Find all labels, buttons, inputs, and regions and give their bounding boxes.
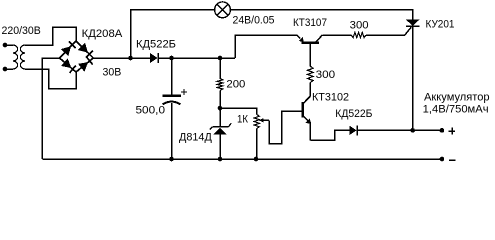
resistor R1 200 — [217, 78, 223, 90]
label 1К — [237, 114, 249, 126]
svg-text:КУ201: КУ201 — [426, 18, 455, 30]
label Д814Д — [179, 131, 212, 143]
wire primary bottom lead — [5, 68, 13, 70]
svg-text:КТ3107: КТ3107 — [293, 17, 327, 29]
svg-text:30В: 30В — [103, 66, 122, 78]
resistor R4 300 — [351, 32, 366, 37]
resistor R3 300 — [308, 66, 314, 82]
label 300 (R3) — [316, 69, 336, 81]
wire zener bottom — [219, 134, 221, 159]
transformer T1 primary terminal dots — [3, 43, 8, 72]
label 220/30В — [2, 25, 41, 37]
diode VD7 КД522Б — [349, 125, 357, 135]
node zener junction — [218, 106, 223, 111]
VT2 emitter — [304, 116, 312, 140]
VT1 emitter arrow — [297, 35, 304, 42]
wire 30В output — [93, 57, 150, 59]
wire emitter feed — [235, 35, 297, 58]
svg-text:КТ3102: КТ3102 — [312, 92, 349, 104]
wire after VD2 — [158, 57, 235, 59]
svg-text:1К: 1К — [237, 114, 249, 126]
wire primary top lead — [5, 44, 13, 46]
node R2 ground — [254, 157, 259, 162]
thyristor VS1 КУ201 — [406, 20, 420, 131]
svg-text:220/30В: 220/30В — [2, 25, 41, 37]
wire R2 bottom — [256, 129, 258, 159]
wire VT1 base to R3 — [309, 44, 311, 67]
svg-text:300: 300 — [316, 69, 336, 81]
node junction to lamp branch — [128, 56, 133, 61]
label КТ3107 — [293, 17, 327, 29]
lamp HL1 — [215, 2, 231, 18]
svg-text:300: 300 — [350, 19, 369, 31]
label КТ3102 — [312, 92, 349, 104]
capacitor C1 500,0 positive plate — [163, 95, 181, 97]
capacitor C1 polarity plus — [181, 89, 187, 95]
VT2 collector — [304, 83, 311, 104]
wire R4 to thyristor gate — [366, 27, 411, 35]
svg-text:КД208А: КД208А — [82, 28, 123, 40]
node zener ground — [218, 157, 223, 162]
transformer T1 secondary winding — [20, 45, 25, 69]
node junction capacitor — [169, 56, 174, 61]
battery minus terminal — [440, 157, 445, 162]
wire junction to R2 top — [220, 108, 257, 114]
wire lamp branch up — [131, 10, 215, 58]
R2 wiper arrow — [259, 118, 269, 122]
bridge diode lower-left (anode left vertex, cathode bottom) — [60, 58, 77, 73]
label 30В — [103, 66, 122, 78]
label − — [449, 159, 456, 161]
potentiometer R2 1К — [254, 114, 259, 128]
svg-text:200: 200 — [226, 79, 245, 91]
node thyristor cathode to plus wire — [410, 128, 415, 133]
battery plus terminal — [440, 128, 445, 133]
node capacitor ground — [169, 157, 174, 162]
label 1,4В/750мАч — [423, 104, 489, 116]
label 500,0 — [136, 105, 166, 117]
svg-text:500,0: 500,0 — [136, 105, 166, 117]
svg-text:Аккумулятор: Аккумулятор — [424, 91, 490, 103]
label КУ201 — [426, 18, 455, 30]
wire R1 bottom — [219, 91, 221, 109]
wire lamp to thyristor anode — [230, 10, 412, 20]
wire bridge minus to ground rail — [42, 58, 59, 159]
svg-text:Д814Д: Д814Д — [179, 131, 212, 143]
label Аккумулятор — [424, 91, 490, 103]
svg-text:24В/0.05: 24В/0.05 — [233, 14, 275, 26]
label 200 — [226, 79, 245, 91]
wire VT2 emitter to VD7 — [310, 130, 349, 140]
bridge diode upper-right (anode top vertex, cathode right) — [76, 41, 93, 58]
VT1 collector — [316, 35, 352, 43]
label КД522Б (VD2) — [136, 39, 176, 51]
capacitor C1 curved plate — [163, 102, 181, 105]
svg-text:КД522Б: КД522Б — [335, 108, 372, 120]
wire secondary bottom to bridge AC bottom — [25, 69, 76, 89]
wire R1 top — [219, 58, 221, 78]
bridge diode upper-left (anode left vertex, cathode top) — [60, 41, 77, 58]
svg-text:1,4В/750мАч: 1,4В/750мАч — [423, 104, 489, 116]
wire capacitor top — [171, 58, 173, 95]
label 24В/0.05 — [233, 14, 275, 26]
label 300 (R4) — [350, 19, 369, 31]
bridge diode lower-right (anode bottom vertex, cathode right) — [76, 57, 93, 72]
transistor VT2 КТ3102 base bar — [302, 102, 304, 118]
wire zener top — [219, 108, 221, 127]
label КД208А — [82, 28, 123, 40]
label КД522Б (VD7) — [335, 108, 372, 120]
wire capacitor bottom — [171, 103, 173, 159]
wire battery plus — [357, 129, 442, 131]
transformer T1 primary winding — [13, 45, 18, 69]
ground rail (minus) — [42, 158, 442, 160]
diode VD2 КД522Б — [150, 53, 158, 63]
node junction R1 — [218, 56, 223, 61]
svg-text:КД522Б: КД522Б — [136, 39, 176, 51]
wire wiper to VT2 base — [269, 111, 302, 144]
zener VD6 Д814Д — [210, 123, 231, 134]
transistor VT1 КТ3107 base bar — [302, 42, 319, 44]
label + — [449, 128, 456, 135]
wire secondary top to bridge AC top — [25, 27, 76, 45]
